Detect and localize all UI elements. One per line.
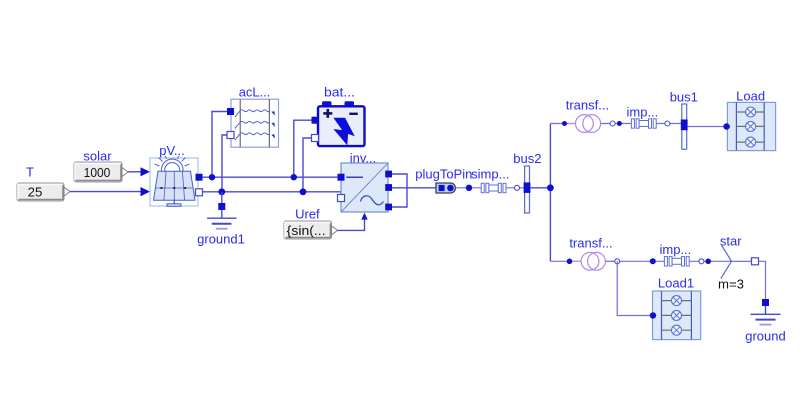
wire star to ground <box>759 261 766 300</box>
arrow into pV input1 <box>141 167 151 176</box>
star pin (open square) <box>752 258 759 265</box>
wave 3 <box>235 133 270 140</box>
open circle connector <box>665 121 670 126</box>
plus sign <box>323 112 332 115</box>
wire simp to bus2 <box>506 187 525 189</box>
lamp 2 <box>662 314 692 316</box>
svg-text:T: T <box>26 165 34 180</box>
wire imp to star <box>689 260 731 262</box>
wire transf to imp top <box>601 123 632 125</box>
trunk vertical wire <box>549 124 551 262</box>
svg-text:transf...: transf... <box>569 236 612 251</box>
battery body <box>318 106 365 146</box>
wave 1 <box>235 110 270 117</box>
arrow into pV input2 <box>141 187 151 196</box>
junction dot trunk <box>547 184 554 191</box>
constant block solar <box>74 149 128 183</box>
wire upper dc bus pV to inverter <box>199 176 341 178</box>
bat battery block <box>312 84 365 146</box>
svg-text:solar: solar <box>83 149 112 164</box>
svg-text:Load: Load <box>736 88 765 103</box>
imp bottom impedance block <box>660 242 692 266</box>
panel grid <box>156 187 194 189</box>
dc line symbol <box>346 176 363 178</box>
pV terminal minus (open square) <box>196 189 203 196</box>
wire Uref to inverter <box>338 219 365 230</box>
lamp 3 <box>662 329 692 331</box>
svg-text:25: 25 <box>28 184 43 199</box>
plugToPin block <box>415 166 472 193</box>
battery caps <box>322 101 332 107</box>
wire bat pin1 down to upper bus <box>294 120 315 177</box>
panel dots <box>161 187 163 189</box>
junction dot at Load1 <box>650 312 656 318</box>
junction dots on upper bus <box>209 174 215 180</box>
sun arcs <box>161 159 183 171</box>
junction dot at Load <box>723 123 729 129</box>
svg-text:ground1: ground1 <box>197 232 245 247</box>
bat terminal pin (filled square) <box>312 117 319 124</box>
wire solar to pV <box>128 171 142 173</box>
wire bus2 to trunk <box>530 187 550 189</box>
pV terminal plus (filled square) <box>196 174 203 181</box>
junction dot <box>562 121 567 126</box>
svg-text:pV...: pV... <box>159 143 185 158</box>
lamp 3 <box>736 141 764 143</box>
acL terminal n (open square) <box>227 132 234 139</box>
bus1 <box>670 90 698 150</box>
svg-text:m=3: m=3 <box>718 276 744 291</box>
panel trapezoid <box>154 171 196 200</box>
wire trunk to transf bottom <box>550 260 581 262</box>
junction dot <box>705 259 711 265</box>
junction dots on lower bus <box>218 188 225 195</box>
wire down to Load1 <box>617 261 653 315</box>
star block <box>718 234 759 292</box>
wire inv ac out to plugToPin <box>388 187 438 189</box>
junction dot <box>650 258 656 264</box>
bat terminal n (open square) <box>312 135 319 142</box>
Uref expression block <box>284 207 338 240</box>
svg-text:imp...: imp... <box>660 242 692 257</box>
junction dot <box>466 185 472 191</box>
lamp 1 <box>736 111 764 113</box>
lamp 1 <box>662 300 692 302</box>
wire imp to bus1 <box>656 123 682 125</box>
Load block <box>727 88 775 150</box>
Load1 block <box>653 276 701 340</box>
pV module block <box>150 143 198 206</box>
bus2 <box>513 151 541 213</box>
panel stand <box>173 200 175 204</box>
svg-text:imp...: imp... <box>627 105 659 120</box>
inv inverter block <box>341 151 388 213</box>
svg-text:Uref: Uref <box>295 207 320 222</box>
wire inv right top jog <box>388 174 407 207</box>
wire trunk to transf top <box>550 123 576 125</box>
svg-text:star: star <box>720 234 742 249</box>
open circle connector <box>699 259 704 264</box>
open circle connector <box>610 121 615 126</box>
wire acL pin1 down to upper bus <box>212 112 231 178</box>
svg-text:bat...: bat... <box>324 84 355 99</box>
constant block T <box>17 165 70 202</box>
acL terminal p (filled square) <box>227 108 234 115</box>
svg-text:bus2: bus2 <box>513 151 541 166</box>
junction dot <box>567 259 573 265</box>
svg-text:bus1: bus1 <box>670 90 698 105</box>
simp impedance block <box>471 166 509 192</box>
ground symbol <box>745 306 785 344</box>
arrow into inverter bottom <box>361 213 367 220</box>
wire lower dc bus pV to inverter <box>199 192 341 198</box>
open circle connector <box>615 259 620 264</box>
ground1 stem <box>221 192 223 218</box>
wire transf to imp bottom <box>605 260 664 262</box>
transf bottom transformer <box>569 236 614 271</box>
junction dot <box>617 121 622 126</box>
transf top transformer <box>566 98 610 133</box>
wire acL pin2 down to lower bus <box>222 135 231 192</box>
minus sign <box>349 113 358 115</box>
wave 2 <box>235 121 270 128</box>
svg-text:simp...: simp... <box>471 166 509 181</box>
svg-text:plugToPin: plugToPin <box>415 166 472 181</box>
ground1 symbol <box>197 218 245 246</box>
ground terminal square <box>762 299 769 306</box>
imp top impedance block <box>627 105 659 129</box>
lightning bolt <box>333 118 354 146</box>
svg-text:1000: 1000 <box>84 165 111 180</box>
open circle connector <box>515 185 520 190</box>
inv left terminals <box>338 174 345 181</box>
svg-text:ground: ground <box>745 329 785 344</box>
wire bat pin2 down to lower bus <box>303 138 315 192</box>
acL block <box>227 85 279 148</box>
wire bus1 to Load <box>688 126 728 128</box>
ac sine symbol <box>361 196 384 205</box>
lamp 2 <box>736 125 764 127</box>
svg-text:Load1: Load1 <box>658 276 694 291</box>
ground1 terminal square <box>218 203 225 210</box>
svg-text:transf...: transf... <box>566 98 609 113</box>
sun rays <box>155 164 160 166</box>
svg-text:acL...: acL... <box>239 85 271 100</box>
inv right terminals <box>385 171 392 178</box>
wire T to pV <box>70 191 142 193</box>
svg-text:{sin(...: {sin(... <box>287 223 326 238</box>
wire plugToPin to simp <box>456 187 482 189</box>
